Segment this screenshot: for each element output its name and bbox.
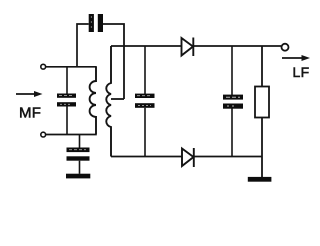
wire coupling cap right to center tap — [103, 24, 124, 99]
terminal input top — [41, 64, 46, 69]
terminal input bottom — [41, 132, 46, 137]
wire coupling cap left — [77, 24, 89, 67]
svg-text:LF: LF — [293, 64, 310, 80]
capacitor C4 plates — [223, 95, 243, 109]
wire top rail right — [193, 45, 281, 47]
wire bottom rail right — [194, 156, 262, 158]
wire tank top — [46, 66, 97, 68]
inductor L2 secondary — [106, 46, 111, 157]
inductor L1 primary — [90, 67, 96, 134]
wire stub to ground — [79, 161, 81, 174]
capacitor C3 secondary tuning (legs) — [144, 46, 146, 157]
ground (right) — [248, 177, 272, 182]
capacitor C2 tank (legs) — [66, 67, 68, 135]
diode D1 — [182, 38, 194, 57]
diode D2 — [182, 148, 194, 167]
terminal output — [282, 44, 289, 51]
capacitor C3 plates — [135, 94, 155, 108]
svg-text:MF: MF — [19, 105, 41, 122]
capacitor C4 output (legs) — [231, 46, 233, 157]
wire center tap — [111, 98, 124, 100]
capacitor C5 decoupling plates — [67, 148, 90, 161]
wire tank bottom — [46, 134, 97, 136]
input arrow MF — [16, 91, 43, 97]
wire top rail left — [111, 45, 181, 47]
capacitor C2 plates — [57, 94, 76, 107]
wire bottom rail left — [111, 156, 182, 158]
capacitor C1 coupling plates — [89, 14, 103, 32]
resistor R1 — [255, 46, 269, 177]
ground (left) — [66, 174, 90, 179]
output arrow LF — [282, 55, 310, 61]
wire stub to decoupling cap — [79, 135, 81, 148]
